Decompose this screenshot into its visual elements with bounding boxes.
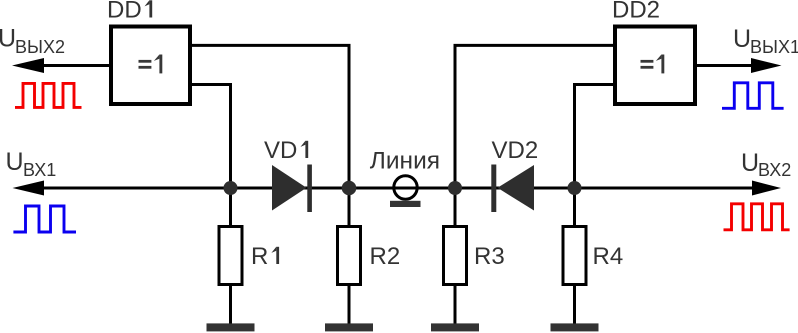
label U_BX1 (middle left) — [6, 148, 57, 180]
node C junction dot — [448, 181, 462, 195]
resistor R3 — [444, 227, 505, 285]
svg-text:U: U — [733, 25, 751, 53]
wire: R3 to ground — [454, 286, 457, 324]
diode VD1 (anode left, cathode right) — [272, 165, 312, 213]
label U_BX2 (middle right) — [741, 149, 791, 180]
resistor R1 — [219, 227, 279, 285]
waveform blue (under U_BYX1) — [722, 83, 784, 109]
resistor R4 — [563, 227, 623, 285]
arrow: U_BYX2 left arrowhead — [12, 58, 44, 73]
svg-text:R: R — [251, 243, 268, 270]
wire: R4 to ground — [573, 286, 576, 324]
wire: DD1 output to left arrow U_BYX2 — [32, 64, 111, 67]
wire: node D down to R4 — [573, 188, 576, 226]
svg-text:Линия: Линия — [370, 147, 440, 174]
wire: node D up to DD2 bottom-left input — [575, 85, 617, 189]
arrow: U_BX2 right arrowhead — [752, 181, 781, 196]
svg-text:U: U — [0, 25, 16, 53]
wire: node C down to R3 — [454, 188, 457, 226]
svg-text:DD: DD — [107, 0, 142, 24]
svg-text:VD2: VD2 — [492, 137, 539, 164]
ground (R4) — [551, 323, 599, 331]
resistor R2 — [338, 227, 401, 285]
svg-text:ВЫХ1: ВЫХ1 — [750, 37, 798, 57]
wire: R2 to ground — [348, 286, 351, 324]
label U_BYX2 (top left) — [0, 25, 65, 57]
svg-text:R3: R3 — [474, 243, 505, 270]
waveform red (under U_BX2) — [724, 204, 790, 230]
line symbol (Линия): circle on wire — [394, 176, 417, 199]
ground (R2) — [325, 323, 373, 331]
label DD1 — [107, 0, 152, 24]
waveform blue (under U_BX1) — [13, 206, 76, 232]
label VD1 — [264, 137, 308, 164]
wire: DD1 bottom-right output to node A (down at x=230.5) — [190, 85, 231, 189]
waveform red (under U_BYX2) — [15, 83, 82, 107]
wire: node B down to R2 — [348, 188, 351, 226]
label U_BYX1 (top right) — [733, 25, 798, 57]
arrow: U_BX1 left arrowhead — [13, 181, 45, 196]
wire: main horizontal line (U_BX1 to U_BX2) — [30, 187, 752, 190]
svg-text:VD: VD — [264, 137, 297, 164]
wire: node C up to DD2 top-left input — [455, 45, 616, 188]
svg-text:R4: R4 — [593, 243, 624, 270]
diode VD2 (anode right, cathode left) — [491, 165, 534, 213]
node D junction dot — [568, 181, 582, 195]
svg-text:U: U — [6, 148, 24, 176]
svg-text:U: U — [741, 149, 759, 177]
ground (R3) — [431, 323, 479, 331]
svg-text:ВХ2: ВХ2 — [758, 160, 791, 180]
node B junction dot — [342, 181, 357, 196]
wire: DD2 output to right arrow U_BYX1 — [695, 64, 755, 67]
node A junction dot — [224, 181, 238, 195]
svg-text:ВЫХ2: ВЫХ2 — [15, 37, 65, 57]
line symbol bar below circle — [390, 201, 421, 207]
ground (R1) — [207, 323, 255, 331]
svg-text:R2: R2 — [370, 243, 401, 270]
gate DD1 (XOR =1) — [111, 27, 190, 105]
wire: DD1 top-right output to node B (down at x=349) — [190, 45, 349, 188]
wire: node A down to R1 — [229, 188, 232, 226]
arrow: U_BYX1 right arrowhead — [751, 58, 782, 73]
wire: R1 to ground — [229, 286, 232, 324]
gate DD2 (XOR =1) — [615, 27, 695, 105]
svg-text:DD2: DD2 — [612, 0, 660, 24]
svg-text:ВХ1: ВХ1 — [23, 160, 56, 180]
